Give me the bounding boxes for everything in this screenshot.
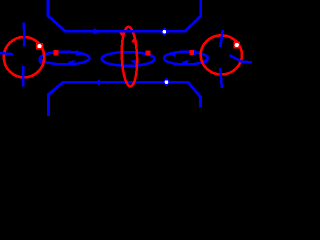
wire: axis lead entering loop A from left edge (0, 53, 13, 54)
spoke: loop A bottom tick (22, 66, 25, 87)
arrow: L2 bottom arc (pointing left) (130, 58, 138, 65)
field-line lens L3 (right helix turn) (164, 52, 208, 65)
coil loop B (right red circle) (201, 35, 242, 74)
node: white dot on loop A rim (36, 43, 43, 50)
arrow: current direction on top wire (pointing right) (93, 28, 100, 34)
node marker: diamond on top wire (160, 27, 169, 36)
coil loop A (left red circle) (4, 37, 44, 77)
spoke: loop B top tick (220, 30, 223, 47)
spoke: loop A top tick (23, 23, 26, 47)
flux ellipse (central red loop, slightly tilted) (119, 26, 140, 86)
wire: lead leaving loop B to right edge (230, 55, 253, 62)
node marker: diamond on bottom wire (162, 78, 171, 87)
spoke: loop B bottom tick (220, 68, 222, 88)
field-line lens L1 (left helix turn) (40, 52, 89, 65)
node: white dot on loop B rim (233, 42, 240, 49)
charge dot: red carrier on L1 (53, 50, 58, 55)
charge dot: red carrier at axis before right loop (190, 50, 195, 55)
wire: bottom right lead (bend down, ends mid-air) (188, 82, 200, 107)
arrow: flux loop left side (pointing down) (119, 31, 127, 40)
arrow: axis current into right loop (pointing right) (194, 49, 200, 55)
arrow: L3 bottom arc (pointing left) (181, 59, 189, 66)
field-line lens L2 (central helix turn) (102, 52, 155, 66)
arrow: current direction on bottom wire (pointing left) (94, 79, 101, 85)
hook: L3 right tip curl inside right loop (204, 56, 208, 63)
hook: L1 left tip curl inside left loop (39, 57, 41, 64)
arrow: L1 bottom arc (pointing left) (67, 59, 75, 66)
arrow: flux loop right side (pointing up) (131, 35, 138, 43)
wire: bottom return conductor (left lead to bottom edge) (49, 82, 190, 116)
wire: top conductor (left lead from top edge) (48, 0, 201, 31)
arrow: L3 top arc (pointing left) (168, 50, 176, 57)
charge dot: red carrier on L2 (145, 50, 150, 55)
arrow: L1 top arc (pointing right) (75, 50, 83, 57)
